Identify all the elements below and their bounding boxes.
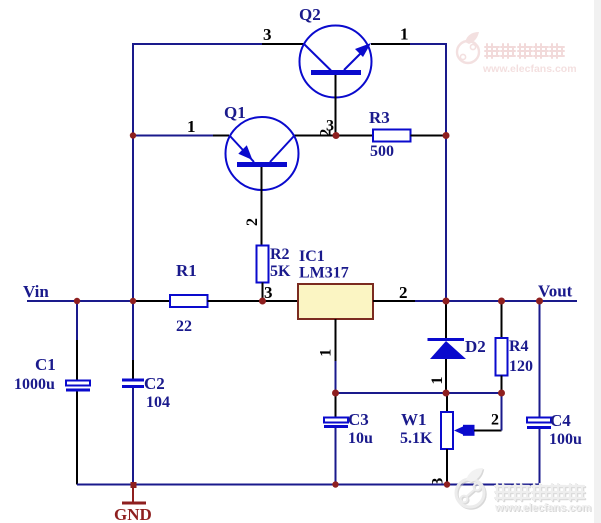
resistor R1 <box>170 295 208 307</box>
wire adj rail (navy) <box>336 392 502 394</box>
junction node (539,301) <box>536 298 543 305</box>
wire D2 bottom lead (black) <box>445 359 447 393</box>
op-amp IC1 LM317 body <box>298 284 373 319</box>
capacitor C4 <box>527 418 551 430</box>
wire C2 top lead upper (navy) <box>132 301 134 360</box>
wire R3 to right rail (black) <box>411 135 447 137</box>
svg-text:GND: GND <box>114 505 152 523</box>
wire C1 bottom lead (black) <box>76 392 78 485</box>
transistor Q2 <box>300 26 372 98</box>
junction node (262,301) <box>259 298 266 305</box>
junction node (133,301) <box>130 298 136 304</box>
wire C1 top lead upper (navy) <box>76 301 78 340</box>
wire ground rail (navy) <box>77 484 540 486</box>
wire node to R3 (black) <box>336 135 373 137</box>
wire left rail vertical (navy) <box>132 43 134 301</box>
svg-text:3: 3 <box>326 118 334 135</box>
watermark top right (very faint) <box>457 32 577 75</box>
wire C3 top lead (black) <box>335 393 337 417</box>
svg-text:C3: C3 <box>348 410 369 429</box>
svg-text:W1: W1 <box>401 410 427 429</box>
wire R2 bottom lead (black) <box>262 283 264 302</box>
wire out row to Vout (navy) <box>415 300 577 302</box>
junction node (335,484) <box>332 481 338 487</box>
svg-text:2: 2 <box>244 218 261 226</box>
wire C2 bottom lead (navy) <box>132 388 134 485</box>
junction node (77,301) <box>74 298 80 304</box>
wire R1 to node3 (black) <box>208 300 263 302</box>
wire Vin row (navy) <box>27 300 133 302</box>
ground <box>122 482 146 505</box>
wire R4 top lead (black) <box>501 301 503 338</box>
junction node (501,393) <box>498 390 505 397</box>
capacitor C1 <box>66 381 90 392</box>
junction node (501,301) <box>498 298 505 305</box>
svg-text:1000u: 1000u <box>14 376 55 393</box>
wire Q1 emitter vertical pin2 (black) <box>261 167 263 246</box>
wire to R1 (black) <box>133 300 170 302</box>
wire top rail into Q2 (black) <box>262 43 304 45</box>
junction node (336,135.5) <box>333 132 340 139</box>
wire R4 bottom lead (black) <box>501 376 503 394</box>
svg-text:D2: D2 <box>465 337 486 356</box>
wire C2 top lead lower (black) <box>132 360 134 379</box>
transistor Q1 <box>226 117 299 190</box>
right edge gray strip <box>594 0 601 523</box>
svg-text:LM317: LM317 <box>299 265 349 282</box>
wire IC out to right (black) <box>373 300 415 302</box>
svg-text:R3: R3 <box>369 108 390 127</box>
svg-text:R2: R2 <box>270 246 290 263</box>
wire into Q1 (black) <box>213 135 229 137</box>
wire C3 bottom lead (navy) <box>335 428 337 485</box>
svg-text:10u: 10u <box>348 430 373 447</box>
wire Q2 base vertical pin2 (black) <box>335 75 337 136</box>
resistor R4 <box>496 338 508 376</box>
junction node (446,135.5) <box>443 132 450 139</box>
svg-text:C4: C4 <box>550 411 571 430</box>
svg-text:1: 1 <box>187 117 196 136</box>
svg-text:Vin: Vin <box>23 282 49 301</box>
resistor R3 <box>373 130 411 142</box>
capacitor C2 <box>122 379 144 389</box>
watermark bottom right (embossed gray) <box>456 468 592 515</box>
wire W1 wiper to right (black) <box>474 430 502 432</box>
wire Q2 emitter to right corner (black) <box>371 43 410 45</box>
junction node (447,484) <box>444 481 450 487</box>
wire node3 to IC (black) <box>263 300 299 302</box>
wire Q1 base row left (navy then black) <box>133 135 213 137</box>
junction node (335,393) <box>332 390 339 397</box>
wire top rail left segment (navy) <box>133 43 262 45</box>
svg-text:2: 2 <box>491 412 499 429</box>
svg-text:www.elecfans.com: www.elecfans.com <box>482 63 577 75</box>
wire right rail vertical (navy) <box>445 43 447 301</box>
wire IC adj pin1 vertical (black) <box>335 319 337 361</box>
wire C4 bottom lead (navy) <box>539 429 541 485</box>
capacitor C3 <box>324 418 348 429</box>
svg-text:R4: R4 <box>509 338 529 355</box>
svg-text:22: 22 <box>176 318 192 335</box>
svg-text:1: 1 <box>429 377 446 385</box>
wire D2 top lead (black) <box>445 301 447 338</box>
svg-text:2: 2 <box>399 283 408 302</box>
junction node (133,135.5) <box>130 132 136 138</box>
resistor R2 <box>257 246 269 283</box>
svg-text:Q2: Q2 <box>299 5 321 24</box>
junction node (446,301) <box>443 298 450 305</box>
wire Q1 collector to node (black) <box>294 135 336 137</box>
diode D2 <box>428 338 467 359</box>
svg-text:Vout: Vout <box>538 282 573 301</box>
svg-text:1: 1 <box>318 349 335 357</box>
svg-text:120: 120 <box>509 358 533 375</box>
wire W1 bottom lead (black) <box>446 449 448 485</box>
wire C4 top lead (navy) <box>539 301 541 417</box>
svg-text:www.elecfans.com: www.elecfans.com <box>494 502 591 514</box>
wire W1 top lead (black) <box>446 393 448 412</box>
svg-text:500: 500 <box>370 143 394 160</box>
svg-text:1: 1 <box>400 25 409 44</box>
wire C1 top lead lower (black) <box>76 340 78 381</box>
junction node (446,393) <box>443 390 450 397</box>
svg-text:C2: C2 <box>144 374 165 393</box>
wire W1 wiper riser (navy) <box>501 393 503 431</box>
svg-text:5K: 5K <box>270 263 291 280</box>
svg-text:C1: C1 <box>35 355 56 374</box>
svg-text:100u: 100u <box>549 431 582 448</box>
svg-text:3: 3 <box>263 25 272 44</box>
potentiometer W1 <box>441 412 475 449</box>
svg-text:IC1: IC1 <box>299 248 325 265</box>
svg-text:R1: R1 <box>176 261 197 280</box>
svg-text:Q1: Q1 <box>224 103 246 122</box>
svg-text:5.1K: 5.1K <box>400 430 433 447</box>
svg-text:104: 104 <box>146 394 170 411</box>
